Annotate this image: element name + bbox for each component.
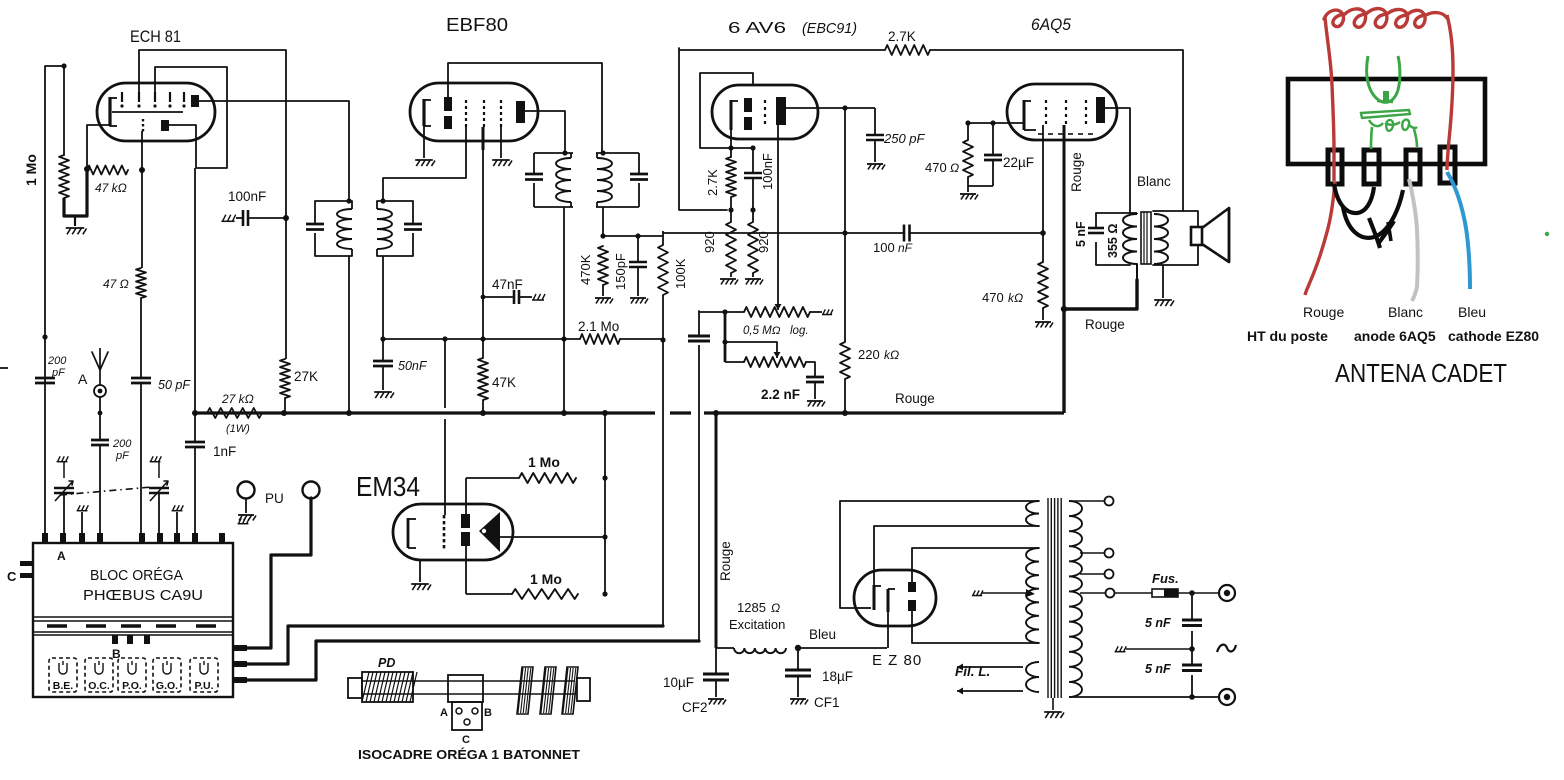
svg-text:Bleu: Bleu bbox=[1458, 304, 1486, 320]
wire EM34 target bbox=[500, 536, 605, 538]
svg-text:2.7K: 2.7K bbox=[888, 29, 916, 44]
wire IF2 right bottom bbox=[602, 207, 604, 236]
tube 6AV6 bbox=[712, 85, 818, 139]
label PHOEBUS CA9U bbox=[83, 587, 203, 604]
svg-text:EM34: EM34 bbox=[356, 471, 420, 502]
label BLOC OREGA bbox=[90, 567, 183, 584]
wire 50pF to bloc bbox=[140, 383, 142, 533]
capacitor 5nF mains 1 bbox=[1182, 620, 1202, 626]
svg-text:47nF: 47nF bbox=[492, 277, 523, 292]
wire EBF80 grid to IF1 bbox=[383, 127, 466, 201]
svg-text:6 AV6: 6 AV6 bbox=[728, 20, 786, 37]
wire 6AV6 plate bbox=[786, 107, 845, 109]
chassis 47nF bbox=[532, 294, 545, 300]
arrow pot1 wiper bbox=[775, 296, 782, 310]
speaker magnet bbox=[1191, 227, 1202, 245]
isocadre coil 4 bbox=[562, 667, 578, 714]
wire det to cap bbox=[662, 230, 664, 232]
node 753 148 bbox=[750, 145, 755, 150]
svg-text:PD: PD bbox=[378, 656, 395, 670]
svg-text:log.: log. bbox=[790, 325, 809, 337]
black stroke 4 bbox=[1378, 221, 1394, 244]
tap circle 1 bbox=[1069, 497, 1114, 506]
isocadre coil 3 bbox=[540, 667, 556, 714]
fuse Fus bbox=[1114, 589, 1219, 597]
wire EBF80 pin center bbox=[482, 127, 485, 339]
isocadre main coil bbox=[362, 672, 417, 702]
connector pin 1 bbox=[1328, 150, 1342, 184]
label 2.2 nF bbox=[761, 387, 800, 402]
6AV6 internal electrodes bbox=[731, 97, 786, 130]
black jumper 1 bbox=[1334, 184, 1374, 213]
trimmer hatch CV1 bbox=[57, 456, 69, 461]
svg-text:Rouge: Rouge bbox=[895, 391, 935, 406]
svg-text:47K: 47K bbox=[492, 375, 516, 390]
svg-text:27K: 27K bbox=[294, 369, 318, 384]
svg-text:Excitation: Excitation bbox=[729, 617, 785, 632]
node det 603 bbox=[600, 233, 605, 238]
svg-text:G.O.: G.O. bbox=[156, 680, 178, 692]
svg-text:100: 100 bbox=[873, 240, 895, 255]
green dot bbox=[1545, 232, 1549, 236]
tap circle 2 bbox=[1080, 549, 1114, 558]
label 50nF bbox=[398, 359, 428, 373]
node bus 349 bbox=[346, 410, 352, 416]
resistor 47 Ohm bbox=[136, 268, 146, 298]
tube EBF80 bbox=[410, 83, 538, 141]
node 1mo upper right bbox=[602, 475, 607, 480]
IF1 left tank box bbox=[315, 201, 352, 256]
label PU bbox=[265, 491, 284, 506]
capacitor IF1 left bbox=[306, 224, 324, 230]
mech link dash-dot bbox=[60, 487, 152, 495]
wire mains bottom bbox=[1069, 696, 1219, 698]
svg-text:P.O.: P.O. bbox=[122, 680, 142, 692]
6AQ5 internal electrodes bbox=[1024, 97, 1105, 134]
wire det to pot bbox=[699, 311, 725, 313]
BLOC top pins bbox=[42, 533, 225, 544]
node pot left2 bbox=[722, 339, 727, 344]
wire 6AV6 outer box bbox=[679, 48, 727, 210]
connector body bbox=[1288, 79, 1485, 164]
wire CV1 stem bbox=[63, 462, 65, 533]
arrow fil 2 bbox=[957, 688, 1023, 695]
node avc 663 bbox=[660, 337, 665, 342]
svg-text:5 nF: 5 nF bbox=[1145, 662, 1171, 676]
wire 47k right vertical bbox=[141, 131, 143, 268]
svg-text:470: 470 bbox=[925, 160, 947, 175]
node 753 210 bbox=[750, 207, 755, 212]
svg-text:pF: pF bbox=[115, 450, 130, 462]
svg-text:100K: 100K bbox=[673, 258, 688, 289]
label 920 a bbox=[702, 231, 717, 253]
label CF2 bbox=[682, 700, 708, 715]
resistor 2.7K top bbox=[885, 45, 930, 55]
capacitor 150pF bbox=[629, 236, 647, 296]
label 5nF OPT bbox=[1074, 221, 1088, 247]
capacitor 22uF bbox=[984, 123, 1002, 186]
chassis for 100nF bbox=[221, 215, 235, 222]
label PD bbox=[378, 656, 395, 670]
node pot left bbox=[722, 309, 727, 314]
wire CV2 stem bbox=[158, 462, 160, 533]
svg-text:355 Ω: 355 Ω bbox=[1106, 224, 1120, 258]
node 6AQ5 grid bbox=[1040, 230, 1046, 236]
capacitor 250pF bbox=[845, 108, 884, 162]
svg-text:Ω: Ω bbox=[950, 161, 959, 175]
node 100nF junction bbox=[283, 215, 289, 221]
label anode 6AQ5 bbox=[1354, 328, 1436, 344]
label 6AQ5 bbox=[1031, 15, 1071, 34]
wire det 663-845 bbox=[663, 232, 845, 234]
label 100nF bbox=[228, 189, 266, 204]
variable capacitor CV1 bbox=[54, 481, 74, 501]
svg-text:200: 200 bbox=[47, 355, 67, 367]
node 47k right bbox=[139, 167, 145, 173]
svg-text:920: 920 bbox=[702, 231, 717, 253]
PU jack left bbox=[238, 482, 255, 514]
label 47K bbox=[492, 375, 516, 390]
EM34 internal electrodes bbox=[408, 512, 500, 552]
node 845 108 bbox=[842, 105, 847, 110]
mains tap arrow bbox=[972, 589, 1035, 597]
svg-text:920: 920 bbox=[756, 231, 771, 253]
label 47 Ohm bbox=[103, 277, 129, 291]
node 1Mo top bbox=[61, 63, 66, 68]
svg-text:47 Ω: 47 Ω bbox=[103, 277, 129, 291]
node mains bottom bbox=[1189, 694, 1195, 700]
capacitor 50 pF bbox=[131, 378, 151, 383]
wire ECH81 grid to 47k bbox=[87, 125, 110, 169]
coil IF1 right bbox=[377, 201, 392, 256]
label 220k bbox=[858, 347, 899, 362]
resistor 47 kOhm bbox=[87, 166, 128, 175]
node AVC left bbox=[380, 336, 385, 341]
svg-text:(EBC91): (EBC91) bbox=[802, 21, 857, 37]
transfo HV coil bbox=[1026, 548, 1039, 643]
wire 47ohm to 50pF bbox=[140, 298, 142, 378]
capacitor 5nF OPT bbox=[1088, 228, 1104, 233]
svg-text:100nF: 100nF bbox=[760, 153, 775, 190]
label Fus bbox=[1152, 571, 1179, 586]
svg-text:Blanc: Blanc bbox=[1137, 174, 1171, 189]
svg-text:470: 470 bbox=[982, 290, 1004, 305]
node 993 123 bbox=[990, 120, 995, 125]
svg-text:Rouge: Rouge bbox=[1303, 304, 1344, 320]
label iso C bbox=[462, 734, 470, 746]
wire 100nF node to 27K bbox=[285, 218, 287, 359]
ECH81 internal electrodes bbox=[110, 92, 199, 131]
label 18uF bbox=[822, 669, 853, 684]
IF2 right tank box bbox=[596, 153, 639, 207]
node mid mains bbox=[1189, 646, 1195, 652]
wire 148 line bbox=[700, 147, 753, 149]
resistor 47K bbox=[478, 339, 488, 413]
wire 6AQ5 grid bbox=[1042, 125, 1044, 233]
wire ECH81 inner box bbox=[155, 67, 227, 168]
tube EZ80 bbox=[854, 570, 936, 626]
wire EBF80 pin ground2 bbox=[500, 127, 502, 158]
BLOC OREGA box bbox=[33, 543, 233, 697]
node IF1 top bbox=[346, 198, 351, 203]
svg-text:100nF: 100nF bbox=[228, 189, 266, 204]
variable capacitor CV2 bbox=[149, 481, 169, 501]
IF1 right tank box bbox=[377, 201, 413, 256]
wire grid bias thick bbox=[64, 169, 87, 216]
trimmer hatch P3 bbox=[77, 505, 89, 533]
svg-text:47 kΩ: 47 kΩ bbox=[95, 181, 127, 195]
wire EBF80 plate bbox=[525, 111, 565, 153]
resistor pot2 bbox=[744, 357, 806, 367]
connector pin 3 bbox=[1406, 150, 1420, 184]
transfo fil coil bbox=[1026, 662, 1039, 692]
BLOC divider band bbox=[33, 617, 233, 635]
svg-text:0,5 MΩ: 0,5 MΩ bbox=[743, 325, 781, 337]
label 150pF bbox=[613, 253, 628, 290]
ground 6AQ5 cathode bbox=[960, 194, 978, 200]
ground speaker bbox=[1154, 300, 1174, 306]
svg-text:250 pF: 250 pF bbox=[883, 131, 926, 146]
coil IF1 left bbox=[337, 201, 352, 256]
node bus 845 bbox=[842, 410, 848, 416]
svg-text:1nF: 1nF bbox=[213, 444, 236, 459]
label 6AV6 bbox=[728, 20, 857, 37]
BLOC band switch boxes bbox=[49, 658, 218, 692]
node fuse bbox=[1189, 590, 1195, 596]
label iso B bbox=[484, 707, 492, 719]
label 47nF bbox=[492, 277, 523, 292]
coil IF2 left bbox=[556, 153, 571, 207]
svg-text:cathode EZ80: cathode EZ80 bbox=[1448, 328, 1539, 344]
ground CF1 bbox=[790, 699, 808, 705]
label 1 Mo upper bbox=[528, 454, 560, 470]
node antenna bbox=[98, 411, 103, 416]
trimmer hatch CV2 bbox=[150, 456, 162, 461]
label Blanc hand bbox=[1388, 304, 1423, 320]
svg-text:150pF: 150pF bbox=[613, 253, 628, 290]
label CF1 bbox=[814, 695, 840, 710]
label Excitation bbox=[729, 617, 785, 632]
transfo primary top coil bbox=[1026, 501, 1039, 526]
label 250 pF bbox=[883, 131, 926, 146]
wire 663 vertical bbox=[662, 340, 664, 626]
coil OPT primary bbox=[1123, 213, 1137, 264]
wire ECH81 top box bbox=[139, 50, 286, 218]
label 47 kOhm bbox=[95, 181, 127, 195]
label 200 pF 1 bbox=[47, 355, 67, 379]
svg-text:kΩ: kΩ bbox=[884, 348, 899, 362]
label 200 pF 2 bbox=[112, 438, 132, 462]
antenna A symbol bbox=[92, 348, 108, 397]
chassis near pin9 bbox=[238, 518, 250, 523]
arrow fil 1 bbox=[957, 664, 1023, 671]
label 1nF bbox=[213, 444, 236, 459]
label 355 ohm bbox=[1106, 224, 1120, 258]
red wire left bbox=[1325, 17, 1334, 181]
resistor 27 kOhm 1W bbox=[207, 408, 262, 418]
svg-text:6AQ5: 6AQ5 bbox=[1031, 15, 1071, 34]
label Rouge bus bbox=[895, 391, 935, 406]
capacitor 200 pF (antenna) bbox=[35, 378, 55, 383]
chassis mid mains bbox=[1115, 646, 1127, 651]
wire OPT B+ thick bbox=[1064, 264, 1137, 309]
capacitor 5nF mains 2 bbox=[1182, 665, 1202, 671]
wire cap top bbox=[698, 311, 700, 312]
wire top blanc right bbox=[930, 50, 1183, 211]
wire EBF80 top bbox=[448, 63, 602, 153]
node 731 210 bbox=[728, 207, 733, 212]
resistor 100K bbox=[658, 236, 668, 339]
node bus 716 bbox=[713, 410, 719, 416]
svg-text:Fus.: Fus. bbox=[1152, 571, 1179, 586]
resistor 920 a bbox=[726, 210, 736, 277]
node bus 284 bbox=[281, 410, 287, 416]
svg-text:1 Mo: 1 Mo bbox=[530, 571, 562, 587]
svg-text:C: C bbox=[7, 569, 17, 584]
wire IF2 left bottom bbox=[563, 207, 565, 339]
isocadre block bbox=[448, 675, 483, 702]
transfo core bbox=[1048, 498, 1061, 698]
isocadre coil 2 bbox=[517, 667, 533, 714]
wire detector bbox=[662, 235, 664, 237]
wire 6AV6 diode bbox=[777, 125, 779, 296]
wire antenna down bbox=[99, 397, 101, 440]
label 10uF bbox=[663, 675, 694, 690]
label 2.7K top bbox=[888, 29, 916, 44]
ground CF2 bbox=[708, 699, 726, 705]
red antenna coil bbox=[1324, 9, 1447, 28]
capacitor 100nF cathode bbox=[744, 148, 762, 210]
wire det cap to grid bbox=[910, 232, 1043, 234]
IF2 left tank box bbox=[534, 153, 573, 207]
label EZ80 bbox=[872, 652, 922, 669]
svg-text:B: B bbox=[112, 647, 121, 661]
svg-text:PHŒBUS CA9U: PHŒBUS CA9U bbox=[83, 587, 203, 604]
ground 920 a bbox=[720, 279, 738, 285]
node osc bus bbox=[192, 410, 198, 416]
wire bloc out 3 bbox=[247, 641, 699, 680]
label ISOCADRE bbox=[358, 747, 580, 762]
svg-text:O.C.: O.C. bbox=[88, 680, 110, 692]
svg-text:22µF: 22µF bbox=[1003, 155, 1034, 170]
node avc 445 bbox=[442, 336, 447, 341]
label 22uF bbox=[1003, 155, 1034, 170]
svg-text:5 nF: 5 nF bbox=[1145, 616, 1171, 630]
label 470 ohm bbox=[925, 160, 959, 175]
svg-text:BLOC ORÉGA: BLOC ORÉGA bbox=[90, 567, 183, 584]
svg-text:P.U.: P.U. bbox=[194, 680, 213, 692]
connector pin 4 bbox=[1440, 147, 1455, 183]
label 920 b bbox=[756, 231, 771, 253]
wire 1Mo column bbox=[466, 544, 512, 594]
OPT 5nF box bbox=[1096, 213, 1130, 265]
label Rouge OPT bbox=[1085, 317, 1125, 332]
tap circle 3 bbox=[1080, 570, 1114, 579]
wire bloc out 2 bbox=[247, 626, 663, 664]
node IF2r top bbox=[600, 150, 605, 155]
svg-text:A: A bbox=[78, 371, 88, 387]
capacitor 1nF bbox=[185, 442, 205, 447]
wire cath bottom bbox=[968, 186, 993, 192]
label AC squiggle bbox=[1217, 645, 1236, 652]
capacitor coupling pot bbox=[688, 336, 710, 341]
isocadre end rect bbox=[577, 678, 590, 701]
svg-text:B.E.: B.E. bbox=[53, 680, 74, 692]
wire EZ80 cathode bbox=[887, 612, 889, 648]
resistor 27K (IF decoupling) bbox=[280, 359, 290, 398]
wire speaker ground bbox=[1162, 265, 1164, 298]
label Bleu hand bbox=[1458, 304, 1486, 320]
label 5nF mains1 bbox=[1145, 616, 1171, 630]
wire B+ down bbox=[1062, 309, 1065, 413]
wire ECH81 plate to IF1 bbox=[199, 101, 349, 201]
svg-text:nF: nF bbox=[898, 241, 913, 255]
wire to ground stem bbox=[74, 216, 76, 226]
svg-text:Ω: Ω bbox=[771, 601, 780, 615]
resistor pot 0.5M bbox=[744, 307, 810, 317]
capacitor 200 pF (2) bbox=[91, 440, 109, 445]
wire IF1 left bottom to bus bbox=[348, 256, 350, 413]
wire osc column bbox=[194, 168, 196, 442]
resistor 2.7K cathode bbox=[726, 148, 736, 210]
black jumper 2 bbox=[1343, 190, 1403, 238]
label (1W) bbox=[226, 423, 250, 435]
wire 1Mo top bbox=[45, 66, 64, 155]
capacitor 10uF bbox=[703, 648, 729, 697]
ground EBF80 right bbox=[492, 160, 512, 166]
trimmer hatch P7 bbox=[172, 505, 184, 533]
resistor 1 Mo (grid leak) bbox=[59, 155, 69, 198]
label Rouge screen bbox=[1069, 152, 1084, 192]
svg-text:HT du poste: HT du poste bbox=[1247, 328, 1328, 344]
wire AVC to bus564 bbox=[563, 339, 565, 413]
wire 6AV6 inner box bbox=[700, 73, 753, 148]
svg-text:A: A bbox=[440, 707, 448, 719]
ground PU left bbox=[238, 515, 256, 521]
wire EM34 grid bbox=[444, 339, 446, 515]
svg-text:ANTENA CADET: ANTENA CADET bbox=[1335, 358, 1507, 388]
label iso A bbox=[440, 707, 448, 719]
svg-text:anode 6AQ5: anode 6AQ5 bbox=[1354, 328, 1436, 344]
node antenna column bbox=[42, 334, 47, 339]
svg-text:470K: 470K bbox=[578, 254, 593, 285]
EBF80 internal electrodes bbox=[424, 97, 525, 129]
node bleu bbox=[795, 645, 801, 651]
label 470 kOhm bbox=[982, 290, 1023, 305]
capacitor 50nF bbox=[373, 339, 393, 390]
wire 6AQ5 cathode bbox=[968, 122, 1024, 124]
capacitor IF2 right bbox=[630, 174, 648, 180]
label Blanc OPT bbox=[1137, 174, 1171, 189]
wire avc-det bbox=[663, 232, 904, 234]
label ANTENA CADET bbox=[1335, 358, 1507, 388]
transfo secondary coil bbox=[1069, 501, 1082, 697]
black stroke 3 bbox=[1369, 218, 1380, 248]
svg-text:1285: 1285 bbox=[737, 600, 766, 615]
ground EM34 bbox=[411, 584, 431, 590]
node pin center AVC bbox=[480, 336, 485, 341]
wire det up bbox=[662, 231, 664, 236]
wire em34 right column bbox=[604, 413, 606, 594]
capacitor 100nF bbox=[236, 210, 286, 226]
svg-text:kΩ: kΩ bbox=[1008, 291, 1023, 305]
wire EM34 cathode ground bbox=[419, 560, 421, 582]
svg-text:CF2: CF2 bbox=[682, 700, 708, 715]
resistor 470k grid bbox=[1038, 233, 1048, 320]
ground 920 b bbox=[745, 279, 763, 285]
green lead right bbox=[1414, 129, 1417, 147]
label 470K bbox=[578, 254, 593, 285]
